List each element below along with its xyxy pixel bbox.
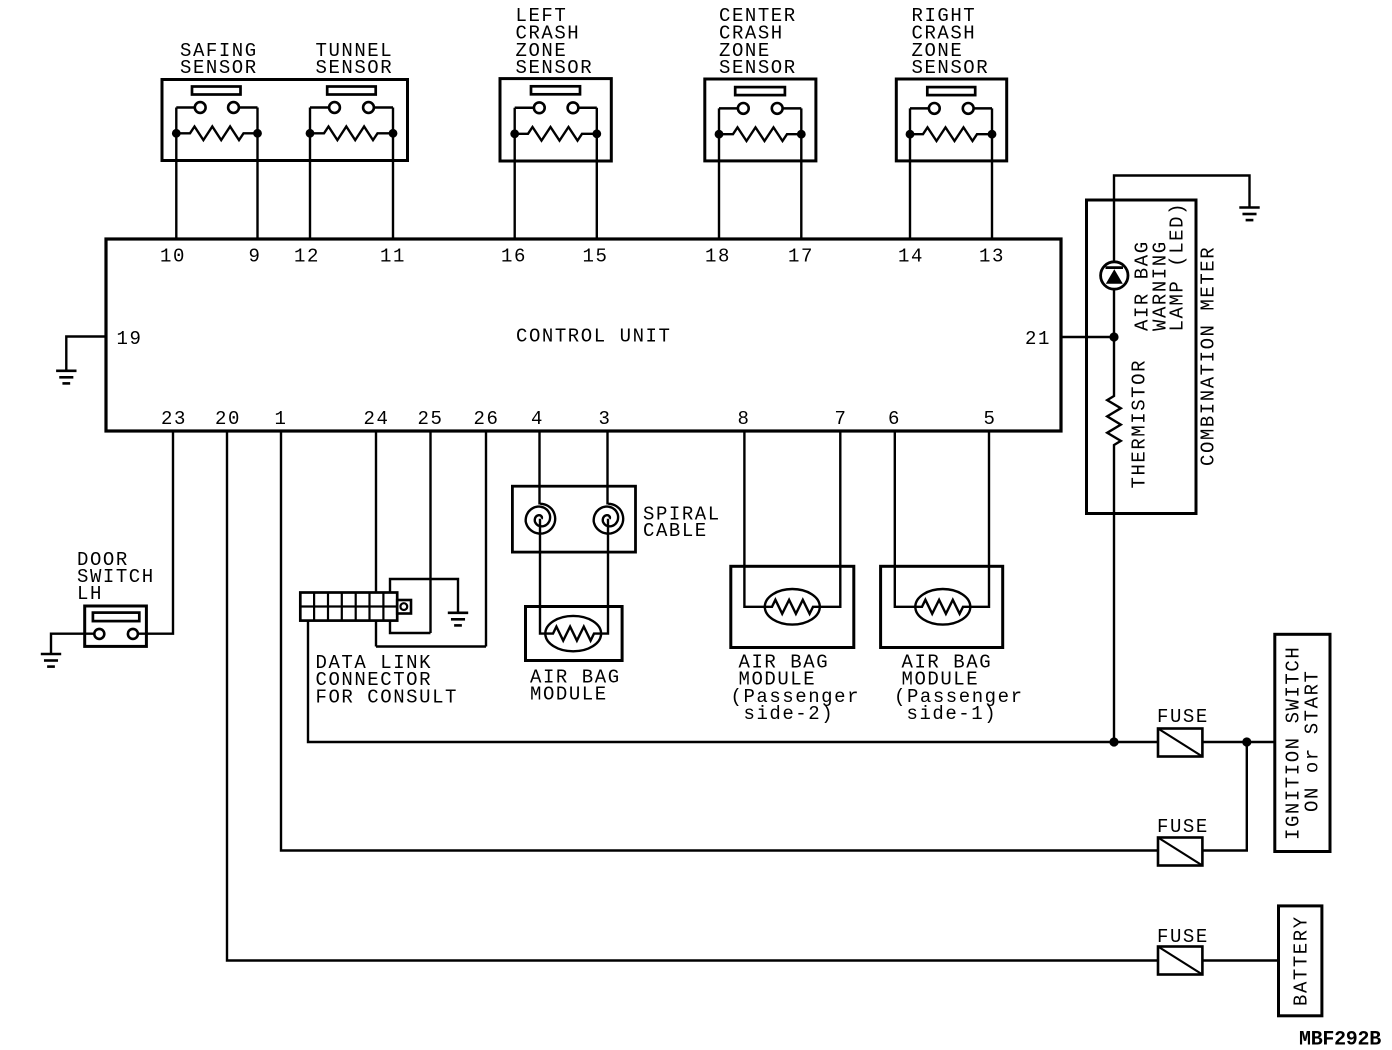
air bag module (driver) box <box>526 607 623 661</box>
fuse F1 <box>1157 706 1209 757</box>
label SPIRAL CABLE <box>643 503 721 542</box>
svg-text:side-1): side-1) <box>907 703 998 725</box>
safing+tunnel sensor enclosure box <box>162 80 408 161</box>
wire pin 21 to combination meter <box>1061 336 1114 338</box>
svg-text:4: 4 <box>531 408 544 430</box>
control unit top pin numbers <box>160 246 1005 268</box>
label CENTER CRASH ZONE SENSOR <box>719 5 797 79</box>
wire fuse F3 to battery <box>1202 959 1278 961</box>
svg-text:14: 14 <box>898 246 924 268</box>
svg-text:SENSOR: SENSOR <box>180 57 258 79</box>
svg-text:25: 25 <box>418 408 444 430</box>
door switch LH box <box>85 606 147 646</box>
wire pin 8 <box>744 430 764 607</box>
wire pin 6 <box>895 430 916 607</box>
svg-text:FOR CONSULT: FOR CONSULT <box>316 686 458 708</box>
label AIR BAG MODULE (Passenger side-1) <box>894 652 1024 726</box>
fuse F2 <box>1157 816 1209 866</box>
svg-text:CONTROL UNIT: CONTROL UNIT <box>516 326 671 348</box>
svg-text:FUSE: FUSE <box>1157 816 1209 838</box>
left crash zone sensor S3 <box>500 79 611 241</box>
ground at door switch <box>41 654 61 667</box>
wire spiral to driver air bag module left <box>540 519 545 634</box>
svg-text:11: 11 <box>380 246 406 268</box>
pin 19 label <box>117 328 143 350</box>
label RIGHT CRASH ZONE SENSOR <box>912 5 990 79</box>
ground at pin 19 <box>56 371 76 384</box>
pin 21 label <box>1025 328 1051 350</box>
svg-text:15: 15 <box>583 246 609 268</box>
control unit bottom pin numbers <box>161 408 996 430</box>
svg-text:LAMP (LED): LAMP (LED) <box>1167 202 1189 332</box>
right crash zone sensor S5 <box>896 79 1006 241</box>
svg-text:MBF292B: MBF292B <box>1299 1029 1381 1050</box>
svg-text:MODULE: MODULE <box>530 684 608 706</box>
wire LED top to ground <box>1114 176 1250 262</box>
door switch wire to ground <box>51 634 94 653</box>
combination meter box <box>1087 200 1197 514</box>
svg-text:13: 13 <box>979 246 1005 268</box>
label AIR BAG MODULE (driver) <box>530 667 621 706</box>
air bag warning lamp LED D1 <box>1101 262 1128 289</box>
svg-text:17: 17 <box>788 246 814 268</box>
safing sensor S1 (contacts, resistor) <box>172 87 262 241</box>
ignition switch box <box>1275 634 1330 851</box>
svg-text:16: 16 <box>501 246 527 268</box>
svg-text:10: 10 <box>160 246 186 268</box>
thermistor R6 <box>1107 289 1121 513</box>
wire pin 7 <box>820 430 841 607</box>
ground at data link connector <box>448 613 468 626</box>
wire pin 1 to fuse <box>281 430 1158 851</box>
wire fuse F1 to ignition switch <box>1202 741 1274 743</box>
svg-text:CABLE: CABLE <box>643 520 708 542</box>
wire pin 25 <box>429 430 431 634</box>
svg-text:3: 3 <box>599 408 612 430</box>
label THERMISTOR <box>1129 359 1151 489</box>
svg-text:21: 21 <box>1025 328 1051 350</box>
label LEFT CRASH ZONE SENSOR <box>516 5 594 79</box>
air bag module (passenger side-1) box <box>881 566 1003 647</box>
svg-text:ON or START: ON or START <box>1302 670 1324 812</box>
svg-text:20: 20 <box>215 408 241 430</box>
wire pin 23 to door switch <box>138 430 173 634</box>
fuse F3 <box>1157 926 1209 975</box>
spiral coil right <box>594 504 624 534</box>
label AIR BAG WARNING LAMP (LED) <box>1132 202 1189 332</box>
label COMBINATION METER <box>1198 246 1220 466</box>
svg-text:23: 23 <box>161 408 187 430</box>
wire junction down to fuse F2 <box>1202 742 1246 851</box>
data link connector grid <box>300 593 411 621</box>
label DATA LINK CONNECTOR FOR CONSULT <box>316 652 458 708</box>
svg-text:18: 18 <box>705 246 731 268</box>
svg-text:SENSOR: SENSOR <box>316 57 394 79</box>
pin 19 wire to ground <box>66 337 106 371</box>
svg-text:1: 1 <box>275 408 288 430</box>
wire joining pins 24-26 below connector <box>376 645 486 647</box>
label SAFING SENSOR <box>180 40 258 79</box>
svg-text:5: 5 <box>984 408 997 430</box>
wire pin 25 loop to ground <box>390 579 458 633</box>
wire pin 20 to fuse <box>227 430 1158 961</box>
svg-text:SENSOR: SENSOR <box>719 57 797 79</box>
wire pin 5 <box>970 430 989 607</box>
wire pin 26 <box>485 430 487 647</box>
wire pin 4 into spiral cable <box>538 430 540 505</box>
label AIR BAG MODULE (Passenger side-2) <box>731 652 861 726</box>
control unit box U1 <box>106 239 1061 431</box>
spiral coil left <box>526 504 556 534</box>
svg-text:7: 7 <box>835 408 848 430</box>
wire from data link connector to fuse (ignition feed) <box>308 621 1158 742</box>
svg-text:12: 12 <box>294 246 320 268</box>
svg-text:THERMISTOR: THERMISTOR <box>1129 359 1151 489</box>
junction dot thermistor/ignition feed <box>1109 737 1118 746</box>
svg-text:FUSE: FUSE <box>1157 926 1209 948</box>
battery box <box>1279 906 1322 1016</box>
center crash zone sensor S4 <box>705 79 816 241</box>
svg-text:SENSOR: SENSOR <box>912 57 990 79</box>
svg-text:FUSE: FUSE <box>1157 706 1209 728</box>
svg-text:side-2): side-2) <box>744 703 835 725</box>
svg-text:24: 24 <box>364 408 390 430</box>
figure code MBF292B <box>1299 1029 1381 1050</box>
svg-text:6: 6 <box>888 408 901 430</box>
svg-text:SENSOR: SENSOR <box>516 57 594 79</box>
junction dot ignition feed <box>1242 737 1251 746</box>
svg-text:19: 19 <box>117 328 143 350</box>
wire pin 24 <box>375 430 377 647</box>
svg-text:26: 26 <box>474 408 500 430</box>
tunnel sensor S2 (contacts, resistor) <box>306 87 398 241</box>
svg-text:COMBINATION METER: COMBINATION METER <box>1198 246 1220 466</box>
spiral cable box <box>512 486 635 552</box>
wire thermistor down to ignition feed <box>1113 514 1115 743</box>
ground at combination meter <box>1239 208 1259 221</box>
svg-text:BATTERY: BATTERY <box>1291 915 1313 1006</box>
label DOOR SWITCH LH <box>77 549 155 605</box>
air bag module (passenger side-2) box <box>731 566 854 647</box>
wire pin 3 into spiral cable <box>606 430 608 505</box>
svg-text:9: 9 <box>249 246 262 268</box>
svg-text:LH: LH <box>77 583 103 605</box>
svg-text:8: 8 <box>738 408 751 430</box>
wire spiral to driver air bag module right <box>601 519 608 634</box>
junction dot pin21/LED <box>1109 332 1118 341</box>
label TUNNEL SENSOR <box>316 40 394 79</box>
